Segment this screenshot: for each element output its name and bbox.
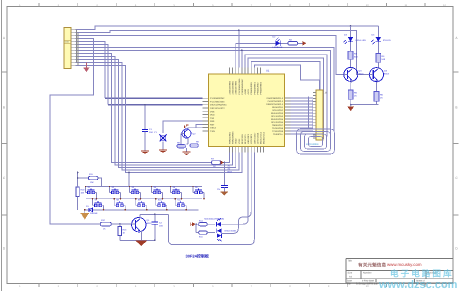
title block: [346, 259, 453, 286]
watermark dzsc: [378, 268, 458, 291]
svg-text:VSS2: VSS2: [238, 138, 241, 144]
svg-text:VDD2: VDD2: [235, 138, 238, 144]
svg-text:1N4148: 1N4148: [90, 212, 98, 215]
connector J1 pins: [71, 29, 76, 65]
svg-text:SDA1/UPD3: SDA1/UPD3: [271, 112, 284, 115]
svg-text:BY-LED: BY-LED: [383, 39, 391, 42]
IC U1 left pins: [203, 98, 209, 131]
capacitor C1 decoupling: [142, 105, 154, 151]
svg-text:D:\Design\30F24.ddb: D:\Design\30F24.ddb: [356, 282, 378, 285]
svg-text:B: B: [455, 106, 457, 110]
ground below Y1: [159, 150, 167, 153]
svg-text:VDD: VDD: [210, 114, 215, 117]
svg-text:SDA/UPD1: SDA/UPD1: [272, 106, 284, 109]
opto LED lower pair: [217, 229, 222, 242]
wire pin8 long to right bus: [76, 50, 331, 134]
svg-text:AN3/CN5/RB3: AN3/CN5/RB3: [229, 80, 232, 94]
button S9: [136, 199, 147, 207]
svg-text:TDI/UPD+: TDI/UPD+: [273, 133, 284, 136]
IC U1 pin labels: [210, 78, 284, 144]
wire collector big loop to IC pin: [168, 153, 254, 245]
svg-text:Number: Number: [363, 271, 372, 274]
svg-text:4-Feb-2009: 4-Feb-2009: [362, 280, 375, 283]
svg-text:PWM2L/RE2: PWM2L/RE2: [256, 82, 259, 95]
power arrow opto: [191, 222, 196, 226]
svg-text:CON: CON: [65, 41, 70, 44]
button S8: [114, 199, 125, 207]
button S7: [93, 199, 104, 207]
svg-text:PWM3H/RE5: PWM3H/RE5: [232, 131, 235, 144]
resistor R13 pulldown: [118, 224, 155, 240]
wire pin9 to below U1: [76, 53, 212, 162]
svg-text:VSS: VSS: [210, 110, 215, 113]
power arrow into junction: [221, 161, 225, 165]
crystal Y1: [154, 121, 203, 150]
svg-text:LCD12864: LCD12864: [306, 143, 319, 146]
svg-text:RST: RST: [210, 123, 215, 126]
transistor Q1: [120, 218, 152, 241]
svg-text:PGD/EMUD/AN7: PGD/EMUD/AN7: [241, 78, 244, 95]
wire loop under J2 second: [301, 132, 331, 152]
resistor R8: [177, 142, 185, 148]
ground below Q2 cluster: [183, 148, 191, 155]
svg-text:SCL/UPD2: SCL/UPD2: [272, 109, 283, 112]
svg-text:AVDD: AVDD: [244, 88, 247, 94]
svg-text:AN4/CN6/RB4: AN4/CN6/RB4: [232, 80, 235, 94]
power arrow at connector: [83, 62, 89, 72]
button S4: [152, 186, 163, 194]
resistor R15: [196, 231, 215, 238]
resistor R4 vertical: [376, 42, 386, 68]
svg-text:P1.1/AN1/CN3: P1.1/AN1/CN3: [210, 100, 225, 103]
svg-text:Date: Date: [347, 280, 353, 283]
svg-text:30F24控制板: 30F24控制板: [186, 253, 210, 258]
ground below Q1: [135, 240, 148, 246]
svg-text:电子电路图库: 电子电路图库: [390, 268, 454, 278]
wire IC top pin nested 3: [251, 61, 320, 131]
transistor Q2 reset circuit: [181, 124, 203, 144]
svg-text:PWM3L/RE4: PWM3L/RE4: [229, 131, 232, 144]
connector J2 pins: [313, 93, 316, 138]
wire opto lower return: [222, 153, 251, 234]
matrix rail top: [86, 186, 202, 188]
resistor R7 on wire: [211, 158, 221, 168]
junction below IC: [223, 162, 225, 164]
svg-text:P1.0/AN0/CN2: P1.0/AN0/CN2: [210, 97, 225, 100]
IC U1 bottom pins: [230, 147, 264, 153]
svg-text:LEDBLUE: LEDBLUE: [273, 46, 284, 49]
IC U1 top pins: [230, 68, 261, 74]
svg-text:OSC1/CLKI/T2: OSC1/CLKI/T2: [210, 107, 225, 110]
svg-text:PWM2H/RE3: PWM2H/RE3: [260, 81, 263, 94]
wire loop under J2 third: [305, 134, 327, 149]
wire pin10 to below U1: [76, 56, 233, 165]
wire pin1 VCC top rail: [76, 26, 379, 29]
ground below Q3: [347, 105, 354, 111]
svg-text:SCL1/UPD4: SCL1/UPD4: [271, 115, 284, 118]
wire pin5 to U1 pin: [76, 41, 106, 98]
IC U1 right pins: [285, 98, 291, 134]
ground below C1: [141, 151, 149, 154]
svg-text:U1: U1: [266, 70, 270, 73]
svg-text:LED#-LED: LED#-LED: [356, 39, 367, 42]
svg-text:U1RX/RF2: U1RX/RF2: [247, 133, 250, 144]
button S1: [86, 186, 97, 194]
svg-text:10K: 10K: [81, 192, 85, 195]
diode D1: [86, 205, 98, 215]
svg-text:TDO/UPD8: TDO/UPD8: [272, 127, 284, 130]
resistor R5 vertical: [348, 82, 357, 105]
svg-text:PWM1H/RE1: PWM1H/RE1: [253, 81, 256, 94]
wire IC top pin nested 2: [248, 58, 323, 139]
resistor R12 base: [100, 219, 120, 230]
wire IC top pin nested 1: [245, 55, 327, 137]
junction VCC rail: [350, 25, 352, 27]
svg-text:PGC/EMUC/AN6: PGC/EMUC/AN6: [238, 78, 241, 95]
matrix rail bottom: [85, 209, 199, 211]
resistor R14: [196, 220, 215, 226]
svg-text:BTA16-600B: BTA16-600B: [225, 230, 237, 233]
wire pin2 to Q4 base: [76, 30, 370, 74]
svg-text:www.mcusky.com: www.mcusky.com: [387, 262, 422, 267]
wire matrix feed 2: [128, 173, 130, 187]
svg-text:EMUD2/OC2: EMUD2/OC2: [263, 131, 266, 144]
svg-text:SCL2/UPD6: SCL2/UPD6: [271, 121, 284, 124]
svg-text:TCK/UPD9: TCK/UPD9: [272, 130, 284, 133]
svg-text:EMUC2/OC1: EMUC2/OC1: [260, 131, 263, 144]
svg-text:U1TX/RF3: U1TX/RF3: [250, 133, 253, 144]
transistor Q3: [344, 67, 364, 82]
ground below C5: [221, 192, 228, 195]
svg-text:OA0/CN0/SPI1.4: OA0/CN0/SPI1.4: [266, 97, 283, 100]
svg-text:OSBF/CN1/SPI.4: OSBF/CN1/SPI.4: [266, 103, 284, 106]
resistor R11 horizontal: [77, 173, 102, 186]
wire IC top pin nested 4: [254, 65, 319, 90]
resistor R6 vertical: [374, 82, 383, 104]
svg-text:T1IN: T1IN: [210, 130, 215, 133]
junction opto: [195, 223, 197, 225]
svg-text:2SCK1/AN2/SS1: 2SCK1/AN2/SS1: [210, 104, 227, 107]
svg-text:9013: 9013: [147, 222, 153, 225]
svg-text:U2RX/CN17: U2RX/CN17: [253, 132, 256, 144]
opto LED upper: [216, 218, 221, 226]
svg-text:OA1/CN1/SPI.4: OA1/CN1/SPI.4: [268, 100, 284, 103]
svg-text:SDA2/UPD5: SDA2/UPD5: [271, 118, 284, 121]
junction base: [119, 223, 121, 225]
wire pin3 to Q3 base: [76, 35, 344, 74]
wire matrix feed 1: [77, 173, 79, 179]
earth ground below matrix: [81, 210, 89, 220]
svg-text:AVSS: AVSS: [247, 88, 250, 94]
svg-text:9013: 9013: [359, 73, 365, 76]
resistor R9: [187, 138, 200, 147]
wire pin6 to U1 pin: [76, 44, 109, 104]
connector LCD J2: [316, 90, 323, 140]
svg-text:B: B: [3, 106, 5, 110]
capacitor C5: [217, 163, 228, 193]
resistor R10 vertical pullup: [76, 178, 85, 210]
svg-text:RST: RST: [228, 171, 233, 174]
svg-text:www.dzsc.com: www.dzsc.com: [378, 279, 458, 291]
svg-text:Title: Title: [348, 260, 353, 263]
svg-text:Size: Size: [348, 271, 353, 274]
button S6: [193, 186, 204, 194]
wires U1 right pins to J2: [291, 98, 314, 134]
button S10: [156, 199, 167, 207]
button S2: [110, 186, 121, 194]
button S3: [130, 186, 141, 194]
wire IC top pin to LED chain: [236, 43, 271, 67]
svg-text:PWM1L/RE0: PWM1L/RE0: [250, 82, 253, 95]
wire loop under J2 inner: [309, 137, 323, 147]
svg-text:OSC2: OSC2: [210, 127, 217, 130]
capacitor C2: [140, 213, 168, 241]
resistor R3 vertical: [348, 42, 358, 68]
transistor Q4: [370, 68, 390, 83]
connector J1 CON14: [64, 28, 71, 69]
wire opto upper return: [222, 153, 249, 225]
wire connector aux verticals: [76, 29, 78, 62]
wire J2 verticals: [308, 97, 310, 129]
IC U1 30F24 QFP body: [208, 74, 284, 147]
svg-text:10K: 10K: [90, 181, 94, 184]
LED D3: [344, 26, 367, 44]
svg-text:U2TX/CN18: U2TX/CN18: [256, 132, 259, 144]
wire IC top pin junction rail2: [238, 30, 240, 67]
wire IC top pin junction rail8: [241, 50, 243, 67]
svg-text:TMS/UPD7: TMS/UPD7: [272, 124, 284, 127]
svg-text:RF0/C1RX: RF0/C1RX: [241, 133, 244, 144]
svg-text:有关元魁信息: 有关元魁信息: [358, 261, 386, 267]
LED D2 with R and supply arrow: [271, 36, 306, 50]
svg-text:RF1/C1TX: RF1/C1TX: [244, 134, 247, 144]
wire pin12 to below U1: [76, 62, 239, 170]
button S5: [171, 186, 182, 194]
wire pin13 to below U1: [76, 65, 242, 172]
LED D4: [371, 26, 391, 44]
wire pin11 to below U1: [76, 59, 236, 167]
svg-text:MOC3041A/TRIAC(B): MOC3041A/TRIAC(B): [204, 217, 224, 220]
opto input bracket: [195, 224, 197, 232]
svg-text:AN5/CN7/RB5: AN5/CN7/RB5: [235, 80, 238, 94]
wire pin7 long to right bus: [76, 47, 335, 131]
wire loop under J2 outer: [297, 129, 335, 154]
button S11: [175, 199, 186, 207]
wire Q columns common emitter rail: [351, 104, 379, 106]
matrix rail mid: [86, 198, 202, 200]
wire pin4 long left loop to key circuit: [50, 38, 100, 224]
svg-text:9013: 9013: [384, 73, 390, 76]
